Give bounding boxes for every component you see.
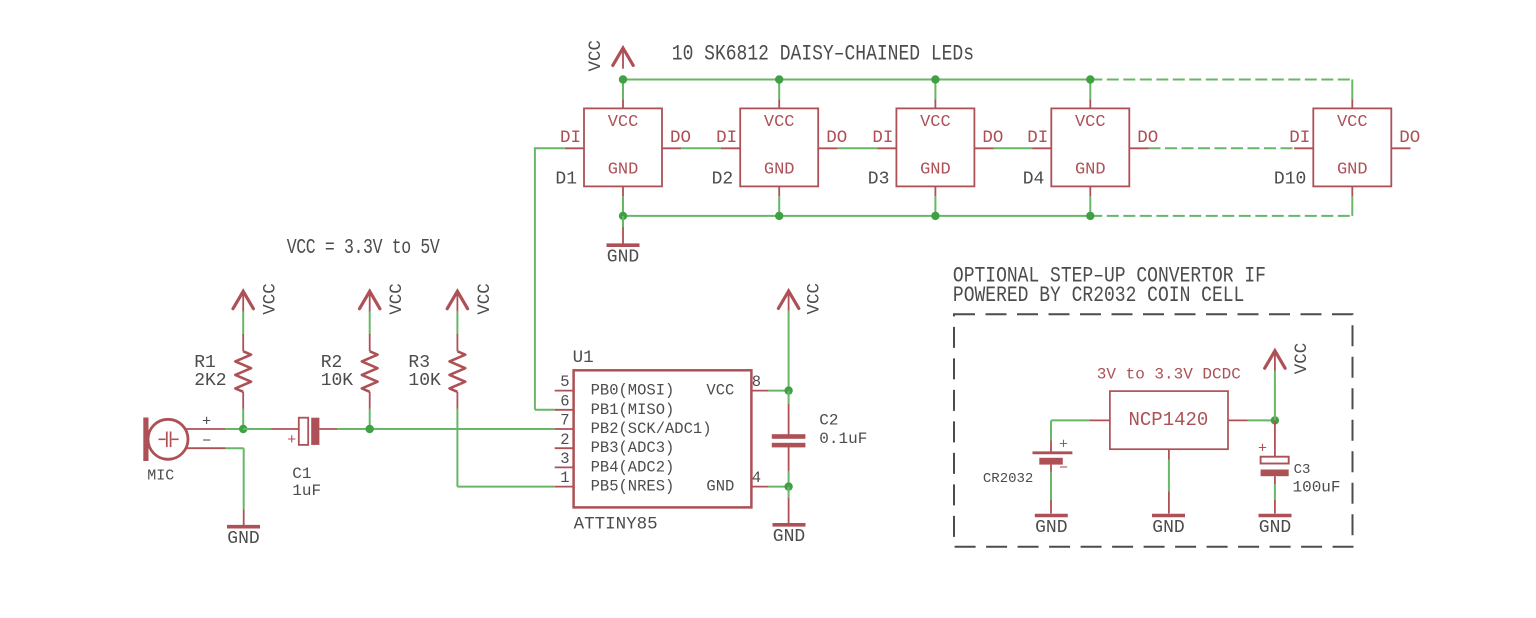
LED D10 (SK6812) [1289,99,1420,196]
svg-text:DI: DI [1027,128,1048,148]
svg-text:7: 7 [560,412,569,430]
svg-text:DO: DO [826,128,847,148]
svg-text:10K: 10K [321,371,354,391]
svg-text:VCC: VCC [261,283,281,315]
wire VCC stub above D1 [622,80,624,100]
junction bottom bus at D3 [931,212,939,220]
svg-text:PB3(ADC3): PB3(ADC3) [591,439,675,457]
wire battery to ground [1050,472,1052,501]
svg-text:0.1uF: 0.1uF [819,430,867,448]
svg-text:DO: DO [1137,128,1158,148]
wire VCC stub above D3 [934,80,936,100]
wire GND stub below D1 [622,196,624,216]
svg-text:D4: D4 [1023,169,1045,189]
svg-text:VCC: VCC [1337,113,1368,132]
wire MIC- down to ground [226,447,244,449]
U1 pin 2 (PB3(ADC3)) [555,447,574,449]
wire junction to C1 [243,428,271,430]
U1 pin 6 (PB1(MISO)) [555,409,574,411]
svg-text:8: 8 [752,373,761,391]
svg-text:VCC: VCC [805,283,825,315]
junction VOUT/C3/VCC [1271,416,1279,424]
svg-text:VCC: VCC [706,382,734,400]
ground (battery) [1035,514,1068,518]
junction R2/PB2 wire [366,425,374,433]
svg-text:PB4(ADC2): PB4(ADC2) [591,458,675,476]
svg-text:GND: GND [773,527,805,547]
wire PB1 to D1 DI (vertical riser) [535,147,565,149]
wire GND stub below D3 [934,196,936,216]
svg-text:DO: DO [1399,128,1420,148]
wire GND bottom bus (solid) [623,215,1090,217]
U1 pin 4 (GND) [751,486,768,488]
wire junction up to VCC [1274,371,1276,421]
wire D1 junction to ground [622,216,624,227]
junction top bus at D2 [775,75,783,83]
junction bottom bus at D2 [775,212,783,220]
wire D1 DO to D2 DI [681,147,721,149]
wire VCC down to pin8 junction [788,311,790,391]
wire VCC drop to D10 [1351,80,1353,100]
svg-text:1uF: 1uF [292,482,321,500]
svg-text:+: + [1258,440,1267,457]
U1 pin 3 (PB4(ADC2)) [555,466,574,468]
wire D3 DO to D4 DI [994,147,1033,149]
svg-text:D10: D10 [1274,169,1306,189]
microphone MIC [143,418,225,462]
svg-text:2K2: 2K2 [194,371,226,391]
svg-text:C1: C1 [292,465,311,483]
junction bottom bus at D1 [619,212,627,220]
svg-text:ATTINY85: ATTINY85 [574,515,658,535]
wire R1 bottom to junction [242,409,244,429]
svg-text:GND: GND [607,248,639,268]
IC NCP1420 (DCDC converter) [1110,391,1228,449]
svg-text:D3: D3 [868,169,890,189]
svg-text:DI: DI [560,128,581,148]
svg-text:DI: DI [872,128,893,148]
wire battery to NCP1420 VIN [1050,420,1052,440]
wire GND rise to D10 [1351,196,1353,216]
ground (LED rail) [607,243,640,247]
svg-text:VCC: VCC [475,283,495,315]
wire VCC to R1 [242,311,244,335]
svg-text:PB0(MOSI): PB0(MOSI) [591,382,675,400]
battery CR2032 [1033,441,1073,472]
svg-text:6: 6 [560,392,569,410]
svg-text:GND: GND [920,160,951,179]
wire junction down to ground [788,487,790,498]
svg-text:10 SK6812 DAISY–CHAINED LEDs: 10 SK6812 DAISY–CHAINED LEDs [672,42,974,67]
svg-text:GND: GND [1337,160,1368,179]
svg-text:VCC = 3.3V to 5V: VCC = 3.3V to 5V [287,235,441,260]
IC U1 ATTINY85 [574,370,752,507]
svg-text:D2: D2 [712,169,734,189]
wire GND stub below D2 [778,196,780,216]
wire MIC+ to junction [226,428,244,430]
svg-text:GND: GND [764,160,795,179]
power flag VCC (R3) [447,291,467,312]
svg-text:+: + [287,432,296,449]
U1 pin 7 (PB2(SCK/ADC1)) [555,428,574,430]
svg-text:POWERED BY CR2032 COIN CELL: POWERED BY CR2032 COIN CELL [953,284,1244,309]
wire C3 to ground [1274,484,1276,500]
wire D2 DO to D3 DI [837,147,877,149]
dashed outline box [954,314,1353,547]
wire VCC stub above D4 [1089,80,1091,100]
svg-text:C2: C2 [819,411,838,429]
svg-text:D1: D1 [555,169,577,189]
svg-text:DI: DI [1289,128,1310,148]
capacitor C3 100uF (polarized) [1261,420,1289,484]
ground (C3) [1259,514,1292,518]
svg-text:3V to 3.3V DCDC: 3V to 3.3V DCDC [1097,365,1241,383]
svg-text:1: 1 [560,469,569,487]
svg-text:DI: DI [716,128,737,148]
svg-text:CR2032: CR2032 [983,471,1033,487]
svg-text:VCC: VCC [920,113,951,132]
svg-text:4: 4 [752,469,761,487]
wire GND bottom bus (dashed) [1090,215,1352,217]
LED D1 (SK6812) [560,99,691,196]
power flag VCC (R2) [360,291,380,312]
svg-text:DO: DO [670,128,691,148]
resistor R1 2K2 [235,334,251,409]
resistor R2 10K [362,334,378,409]
power flag VCC (LED rail) [613,48,633,69]
wire C1 to R2 junction to PB2 [337,428,555,430]
power flag VCC (DCDC) [1265,351,1285,372]
svg-text:2: 2 [560,431,569,449]
wire R3 bottom to PB5 row [456,409,458,487]
ground (NCP1420) [1152,514,1185,518]
svg-text:−: − [202,433,211,450]
svg-text:GND: GND [1259,518,1291,538]
wire GND stub below D4 [1089,196,1091,216]
resistor R3 10K [450,334,466,409]
svg-text:U1: U1 [573,348,594,368]
svg-text:+: + [1059,437,1068,454]
capacitor C1 1uF (polarized) [272,418,338,445]
wire D4 DO to D10 DI (dashed) [1149,147,1295,149]
svg-text:VCC: VCC [1075,113,1106,132]
svg-text:GND: GND [1075,160,1106,179]
wire VCC top bus (solid) [623,79,1090,81]
LED D3 (SK6812) [872,99,1003,196]
svg-text:PB1(MISO): PB1(MISO) [591,401,675,419]
svg-text:NCP1420: NCP1420 [1128,409,1208,431]
ground (MIC) [227,525,260,529]
svg-text:3: 3 [560,450,569,468]
junction top bus at D3 [931,75,939,83]
wire VCC to R3 [456,311,458,335]
ground (C2) [773,523,806,527]
U1 pin 8 (VCC) [751,390,768,392]
junction pin4/C2 [784,482,792,490]
wire C2 to pin4 junction [788,471,790,487]
wire VCC to R2 [369,311,371,335]
svg-text:GND: GND [1035,518,1067,538]
power flag VCC (R1) [233,291,253,312]
svg-text:GND: GND [608,160,639,179]
wire NCP1420 VOUT to junction [1228,419,1248,421]
svg-text:100uF: 100uF [1293,479,1341,497]
junction top bus at D1 [619,75,627,83]
wire VCC stub above D2 [778,80,780,100]
LED D2 (SK6812) [716,99,847,196]
junction top bus at D4 [1086,75,1094,83]
svg-text:10K: 10K [408,371,441,391]
svg-text:VCC: VCC [764,113,795,132]
power flag VCC (U1) [778,291,798,312]
svg-text:GND: GND [706,478,734,496]
svg-text:VCC: VCC [1292,343,1312,375]
svg-text:C3: C3 [1294,462,1311,478]
wire R2 bottom to junction [369,409,371,429]
junction MIC/R1 [239,425,247,433]
svg-text:PB5(NRES): PB5(NRES) [591,478,675,496]
U1 pin 1 (PB5(NRES)) [555,486,574,488]
svg-text:GND: GND [1152,518,1184,538]
svg-text:PB2(SCK/ADC1): PB2(SCK/ADC1) [591,420,712,438]
svg-text:VCC: VCC [387,283,407,315]
svg-text:−: − [1059,460,1068,477]
capacitor C2 0.1uF [772,391,806,471]
NCP1420 ground pin wire [1168,449,1170,459]
junction pin8/C2 [784,386,792,394]
svg-text:GND: GND [227,529,259,549]
svg-text:MIC: MIC [147,468,174,485]
U1 pin 5 (PB0(MOSI)) [555,390,574,392]
wire pin4 to junction [768,486,788,488]
svg-text:+: + [202,413,211,430]
svg-text:VCC: VCC [608,113,639,132]
LED D4 (SK6812) [1027,99,1158,196]
junction bottom bus at D4 [1086,212,1094,220]
wire pin8 to junction [768,390,788,392]
svg-text:5: 5 [560,373,569,391]
wire VCC top bus (dashed) [1090,79,1352,81]
svg-text:DO: DO [982,128,1003,148]
svg-text:VCC: VCC [586,40,606,72]
